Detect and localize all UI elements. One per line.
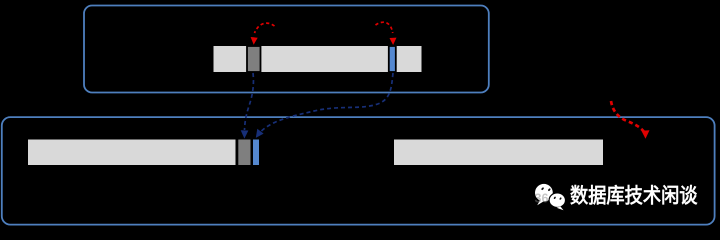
blue dashed arrow: top blue segment to bottom blue segment [256,73,393,138]
top container box [84,6,489,93]
top bar blue segment [389,46,396,72]
bottom left bar [28,140,236,166]
svg-text:36: 36 [535,192,549,206]
bottom container box [2,117,715,225]
faint 36 watermark [535,192,549,206]
red curved arrow entering bottom box at right [611,101,650,139]
blue dashed arrow: top dark segment to bottom dark segment [241,73,254,139]
wechat logo big bubble [535,184,553,205]
bottom dark-gray segment [238,140,250,166]
red arc arrow onto top blue segment [376,22,397,45]
caption text [570,184,698,208]
top bar dark-gray segment [247,46,261,72]
svg-text:数据库技术闲谈: 数据库技术闲谈 [570,184,698,208]
wechat logo big bubble eyes [541,187,551,192]
red arc arrow onto top dark segment [251,23,275,45]
top bar [214,46,422,72]
bottom blue segment [253,140,259,166]
wechat logo small bubble [549,193,565,210]
bottom right bar [394,140,603,166]
wechat logo small bubble eyes [553,196,562,200]
